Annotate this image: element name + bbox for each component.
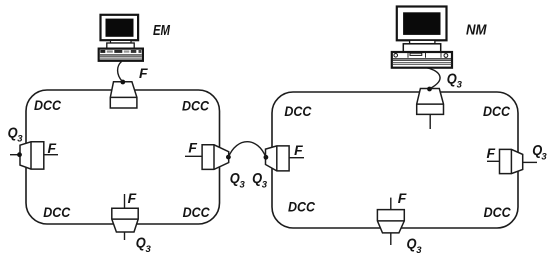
coupler right-ring left (gateway east) xyxy=(266,146,290,171)
computer EM monitor pedestal xyxy=(107,43,134,48)
svg-text:3: 3 xyxy=(541,151,547,162)
svg-text:DCC: DCC xyxy=(284,103,312,119)
node dot on left-ring top coupler xyxy=(120,80,125,85)
wire stub below NM coupler xyxy=(429,114,431,129)
coupler right-ring top (NM attachment) xyxy=(417,89,444,115)
wire F-link from EM computer to coupler xyxy=(118,62,123,82)
wire stub into left coupler xyxy=(10,154,20,156)
svg-text:3: 3 xyxy=(416,245,422,256)
coupler right-ring right xyxy=(500,149,523,173)
wire F line left of right coupler xyxy=(487,160,500,162)
wire F line above right-ring bottom coupler xyxy=(390,198,392,210)
DCC ring left (EM ring) xyxy=(26,90,220,224)
svg-text:3: 3 xyxy=(146,244,152,255)
svg-text:F: F xyxy=(128,190,137,206)
svg-text:3: 3 xyxy=(17,133,23,144)
svg-text:DCC: DCC xyxy=(182,97,210,113)
coupler right-ring bottom xyxy=(377,210,404,233)
computer NM monitor neck xyxy=(410,40,435,44)
computer EM system unit xyxy=(99,49,143,61)
coupler left-ring left xyxy=(20,142,44,169)
node dot east gateway xyxy=(264,155,269,160)
svg-text:F: F xyxy=(139,65,148,81)
wire inter-ring arc between gateways xyxy=(228,142,266,158)
computer NM monitor pedestal xyxy=(403,44,440,52)
wire F line above bottom coupler xyxy=(124,194,126,208)
svg-text:DCC: DCC xyxy=(34,97,62,113)
computer NM system unit xyxy=(392,52,452,68)
computer EM monitor neck xyxy=(111,40,132,43)
coupler left-ring top (EM attachment) xyxy=(110,82,137,108)
wire stub right of right coupler xyxy=(523,161,537,163)
svg-text:DCC: DCC xyxy=(484,204,512,220)
wire F line right of east gateway coupler xyxy=(289,157,304,159)
wire F-link from NM computer to coupler xyxy=(427,68,440,89)
svg-text:F: F xyxy=(487,145,496,161)
computer EM screen xyxy=(106,19,134,37)
svg-text:3: 3 xyxy=(262,179,268,190)
svg-text:3: 3 xyxy=(457,80,463,91)
svg-text:DCC: DCC xyxy=(483,103,511,119)
computer NM screen xyxy=(403,12,440,35)
coupler left-ring bottom xyxy=(112,208,138,232)
svg-text:DCC: DCC xyxy=(183,204,211,220)
wire F line right of left coupler xyxy=(44,154,58,156)
computer EM monitor xyxy=(99,15,143,61)
node dot west gateway xyxy=(226,155,231,160)
wire stub below bottom coupler xyxy=(124,232,126,240)
svg-text:EM: EM xyxy=(153,23,171,39)
svg-text:F: F xyxy=(188,139,197,155)
svg-text:F: F xyxy=(294,142,303,158)
svg-text:DCC: DCC xyxy=(43,204,71,220)
node dot on NM coupler xyxy=(427,87,432,92)
coupler left-ring right (gateway west) xyxy=(202,145,229,170)
wire stub below right-ring bottom coupler xyxy=(390,233,392,245)
svg-text:DCC: DCC xyxy=(288,198,316,214)
node dot on left coupler xyxy=(17,152,22,157)
svg-text:NM: NM xyxy=(466,21,487,38)
svg-text:F: F xyxy=(398,190,407,206)
computer NM monitor xyxy=(392,7,452,68)
svg-text:Q: Q xyxy=(447,70,457,87)
svg-text:3: 3 xyxy=(240,179,246,190)
wire F line left of west gateway coupler xyxy=(185,155,202,157)
DCC ring right (NM ring) xyxy=(272,92,518,228)
svg-text:F: F xyxy=(48,140,57,156)
